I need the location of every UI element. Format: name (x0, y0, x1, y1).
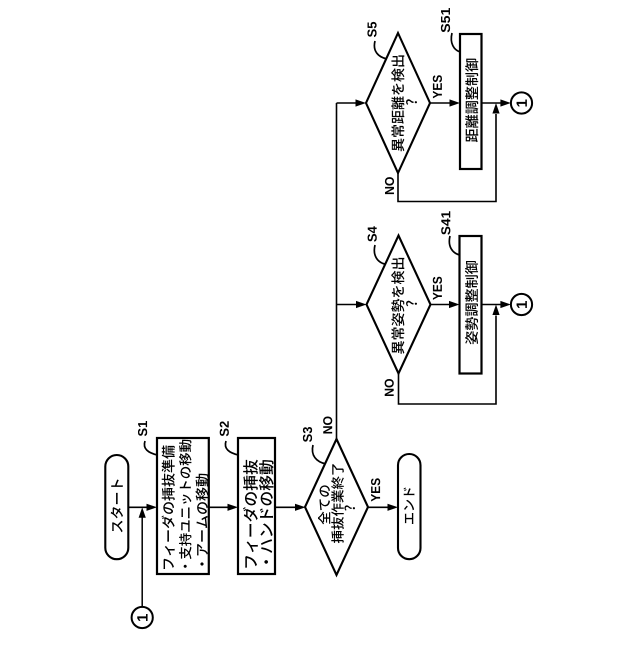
wire: S5 NO loop to output wire (398, 103, 500, 202)
wire: S3 YES to END (368, 504, 398, 511)
wire: S5 YES to S51 (430, 99, 460, 106)
process S1 (フィーダの挿抜準備) (157, 438, 209, 574)
leader squiggle S2 (225, 441, 238, 455)
wire: S41 to circle 1 (S4 row) (482, 301, 511, 308)
label S2 (220, 421, 229, 436)
label S3 (303, 427, 312, 442)
leader squiggle S4 (374, 245, 384, 264)
process S2 (フィーダの挿抜) (238, 438, 275, 574)
terminator END (エンド) (398, 454, 421, 559)
leader squiggle S3 (312, 445, 326, 464)
wire: START to S1 (128, 504, 157, 511)
process S51 (距離調整制御) (460, 34, 482, 169)
label S1 (138, 421, 147, 436)
label NO (S5) (385, 177, 394, 194)
label S41 (441, 211, 450, 235)
connector circle 1 (S5 row) (511, 92, 532, 113)
label S51 (441, 8, 450, 32)
label S5 (367, 22, 376, 37)
wire: branch into S4 (337, 301, 367, 308)
label NO (S4) (385, 379, 394, 396)
leader squiggle S5 (374, 41, 387, 59)
process S41 (姿勢調整制御) (460, 236, 482, 374)
label S4 (368, 226, 377, 241)
wire: S1 to S2 (209, 504, 238, 511)
connector circle 1 (S4 row) (511, 294, 532, 315)
leader squiggle S41 (449, 236, 459, 255)
terminator START (スタート) (105, 455, 128, 559)
decision S5 (異常距離を検出?) (366, 33, 430, 173)
decision S4 (異常姿勢を検出?) (367, 236, 431, 374)
label YES (S3) (371, 478, 380, 501)
wire: S4 YES to S41 (431, 301, 460, 308)
label YES (S5) (433, 75, 442, 98)
connector circle 1 (bottom left) (132, 607, 153, 628)
leader squiggle S51 (451, 33, 460, 52)
wire: S3 NO main line up to S5 row (336, 103, 338, 439)
wire: S51 to circle 1 (S5 row) (482, 99, 511, 106)
wire: turn into S5 (337, 99, 367, 106)
leader squiggle S1 (144, 441, 157, 455)
label NO (S3) (323, 416, 332, 433)
wire: S4 NO loop to output wire (399, 305, 500, 405)
wire: S2 to S3 (275, 504, 306, 511)
decision S3 (全ての挿抜作業終了?) (305, 439, 368, 575)
label YES (S4) (433, 277, 442, 300)
wire: from circle 1 up into start wire junction (139, 507, 146, 607)
